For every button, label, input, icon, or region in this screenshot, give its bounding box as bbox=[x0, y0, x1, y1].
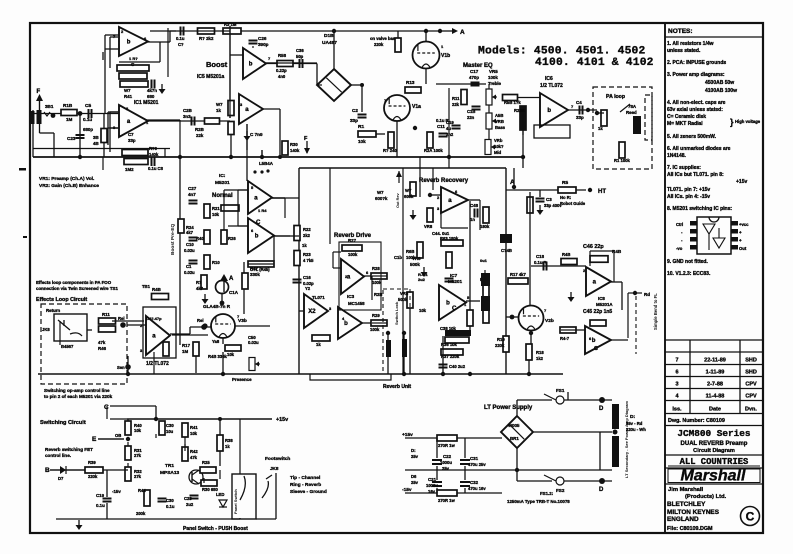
svg-text:Models: 4500. 4501. 4502: Models: 4500. 4501. 4502 bbox=[478, 46, 646, 58]
svg-text:C2: C2 bbox=[352, 108, 358, 113]
wire ic7b vert bbox=[442, 336, 444, 374]
svg-text:R?0: R?0 bbox=[149, 146, 158, 151]
svg-text:1M: 1M bbox=[182, 349, 188, 354]
wire fxop out b bbox=[189, 327, 191, 334]
diode bridge BR1 bbox=[501, 416, 533, 448]
svg-text:Effects loop components in PA: Effects loop components in PA FOO bbox=[36, 280, 112, 285]
svg-text:Ya8: Ya8 bbox=[212, 339, 220, 344]
svg-text:2u2: 2u2 bbox=[418, 277, 426, 282]
node v3a in dot bbox=[202, 323, 207, 328]
svg-text:VR2: Gain (Ch.B) Enhance: VR2: Gain (Ch.B) Enhance bbox=[39, 183, 99, 189]
svg-text:R2B: R2B bbox=[374, 292, 382, 297]
svg-text:7. IC supplies:: 7. IC supplies: bbox=[667, 165, 701, 171]
svg-text:R41: R41 bbox=[124, 94, 133, 99]
svg-text:C 7n9: C 7n9 bbox=[250, 132, 263, 137]
resistor R12fx bbox=[99, 326, 116, 332]
svg-text:+15v: +15v bbox=[736, 179, 747, 185]
wire +15 rail bbox=[127, 418, 272, 420]
svg-text:A5B: A5B bbox=[495, 113, 503, 118]
resistor R44sw bbox=[144, 490, 150, 506]
svg-text:1k: 1k bbox=[216, 108, 221, 113]
wire x2 wire bbox=[299, 310, 304, 312]
svg-text:10k: 10k bbox=[419, 308, 427, 313]
svg-text:4B: 4B bbox=[93, 141, 99, 146]
resistor R57a u4 bbox=[228, 101, 234, 116]
svg-text:Out: Out bbox=[739, 246, 747, 251]
svg-text:1N4148.: 1N4148. bbox=[667, 153, 687, 159]
svg-text:Circuit Diagram: Circuit Diagram bbox=[693, 448, 735, 454]
svg-text:D: D bbox=[599, 487, 604, 493]
capacitor C9 row bbox=[181, 27, 184, 36]
wire horiz 4 bbox=[266, 62, 317, 64]
svg-text:Rel: Rel bbox=[118, 316, 125, 321]
svg-text:-15v: -15v bbox=[402, 487, 412, 493]
node bus dot 4 bbox=[447, 155, 451, 159]
node fx dot bbox=[120, 322, 126, 328]
svg-text:10k: 10k bbox=[190, 431, 198, 436]
relay 78A bbox=[633, 116, 641, 134]
wire normal in bbox=[238, 189, 248, 191]
wire node down bbox=[79, 114, 81, 158]
svg-text:680: 680 bbox=[147, 94, 155, 99]
op-amp U X2 TL071 bbox=[304, 294, 328, 328]
wire r38 wire bbox=[219, 419, 221, 435]
capacitor C22 bbox=[432, 460, 442, 464]
svg-text:File: C80109.DGM: File: C80109.DGM bbox=[667, 526, 713, 532]
svg-text:TL071: TL071 bbox=[312, 295, 325, 300]
svg-text:VR8: VR8 bbox=[400, 291, 409, 296]
svg-text:1k2: 1k2 bbox=[536, 356, 544, 361]
resistor Rps2 bbox=[437, 490, 457, 496]
svg-text:Sleeve - Ground: Sleeve - Ground bbox=[290, 489, 327, 495]
svg-text:R4-7: R4-7 bbox=[560, 336, 570, 341]
svg-text:35v - Rd: 35v - Rd bbox=[626, 421, 643, 426]
svg-text:FS1.2:: FS1.2: bbox=[540, 491, 554, 496]
wire horiz 11 bbox=[50, 469, 85, 471]
svg-text:C32: C32 bbox=[470, 480, 479, 485]
wire vert 10 bbox=[522, 113, 524, 135]
resistor R22 bbox=[294, 226, 300, 241]
svg-text:E: E bbox=[92, 436, 97, 443]
svg-text:FS1: FS1 bbox=[556, 388, 565, 393]
resistor R57b u4 bbox=[228, 122, 234, 135]
svg-text:X2: X2 bbox=[308, 309, 316, 315]
svg-text:High voltage: High voltage bbox=[735, 119, 761, 124]
svg-text:R2A 100k: R2A 100k bbox=[424, 148, 443, 153]
wire u2 fb h2 bbox=[110, 127, 119, 129]
svg-text:C46 22p: C46 22p bbox=[583, 244, 604, 250]
capacitor C32 bbox=[460, 482, 470, 486]
wire bridge top wire bbox=[333, 31, 335, 69]
svg-text:R13: R13 bbox=[406, 80, 415, 85]
svg-text:b: b bbox=[592, 338, 596, 344]
dashed box effects loop box bbox=[41, 304, 127, 384]
R60 gnd arrow bbox=[398, 171, 400, 183]
capacitor C2 bbox=[358, 115, 367, 118]
svg-text:7: 7 bbox=[675, 358, 678, 364]
wire -15 ps bbox=[405, 492, 502, 494]
ground G5 bbox=[76, 520, 83, 530]
wire fb loop u1 bbox=[102, 52, 104, 60]
capacitor C2B bbox=[192, 117, 195, 126]
svg-text:3: 3 bbox=[675, 382, 678, 388]
wire fxop out c bbox=[190, 326, 212, 328]
xfmr winding 2 bbox=[612, 436, 619, 467]
svg-text:4k7n: 4k7n bbox=[147, 88, 157, 93]
F node arrow bbox=[306, 141, 308, 153]
resistor R2 row bbox=[198, 28, 215, 34]
wire bridge left feed bbox=[316, 64, 318, 86]
svg-text:UA487: UA487 bbox=[322, 40, 337, 46]
svg-text:0.1u: 0.1u bbox=[96, 503, 105, 508]
resistor R17fx bbox=[193, 342, 199, 356]
svg-text:1k: 1k bbox=[316, 342, 321, 347]
wire input wire bbox=[34, 113, 119, 115]
resistor R38 bbox=[217, 435, 223, 451]
resistor R11fx bbox=[99, 318, 116, 324]
svg-text:1M: 1M bbox=[66, 117, 73, 122]
wire ic6 down bbox=[522, 130, 524, 168]
op-amp U IC3b bbox=[338, 307, 362, 339]
svg-text:Reed: Reed bbox=[626, 110, 637, 115]
svg-text:10u: 10u bbox=[166, 429, 174, 434]
wire vert 23 bbox=[239, 419, 241, 474]
resistor R71 fb bbox=[590, 320, 606, 326]
svg-text:C16: C16 bbox=[303, 275, 311, 280]
IC pinout diagram U-M5201 bbox=[690, 217, 738, 254]
svg-text:1k: 1k bbox=[598, 126, 603, 131]
resistor R5 bbox=[558, 187, 576, 193]
svg-text:B: B bbox=[45, 467, 50, 474]
svg-text:470u 25v: 470u 25v bbox=[468, 462, 486, 467]
wire c22 up bbox=[436, 438, 438, 458]
node dot t5 bbox=[147, 120, 149, 122]
dashed box PA loop inner bbox=[645, 95, 652, 140]
diode bridge B18 bbox=[317, 69, 351, 101]
wire horiz 13 bbox=[110, 418, 127, 420]
svg-text:C22: C22 bbox=[443, 454, 452, 459]
svg-text:0.1u: 0.1u bbox=[83, 117, 92, 122]
svg-text:No R:: No R: bbox=[560, 195, 571, 200]
svg-text:Rd: Rd bbox=[644, 292, 650, 297]
svg-text:TR1: TR1 bbox=[165, 463, 174, 469]
black comp1 bbox=[481, 273, 490, 286]
svg-text:(Products) Ltd.: (Products) Ltd. bbox=[685, 494, 727, 500]
svg-text:R23B: R23B bbox=[514, 108, 525, 113]
svg-text:Mid: Mid bbox=[494, 150, 502, 155]
svg-text:R58: R58 bbox=[278, 53, 287, 58]
svg-text:R11: R11 bbox=[452, 96, 460, 101]
svg-text:33p 400v: 33p 400v bbox=[544, 203, 562, 208]
wire xf mid bbox=[600, 431, 612, 433]
svg-text:1k: 1k bbox=[225, 444, 230, 449]
wire A down bbox=[513, 168, 515, 187]
wire eq vert col2 bbox=[488, 105, 490, 113]
svg-text:0.1u: 0.1u bbox=[166, 504, 175, 509]
svg-text:100k: 100k bbox=[348, 252, 358, 257]
svg-text:C1A: C1A bbox=[229, 290, 239, 295]
svg-text:C?: C? bbox=[178, 42, 184, 47]
svg-text:Dwg. Number: C80109: Dwg. Number: C80109 bbox=[668, 418, 725, 424]
svg-text:Tip - Channel: Tip - Channel bbox=[290, 475, 320, 481]
svg-text:C27: C27 bbox=[188, 186, 197, 191]
resistor R65 bbox=[446, 252, 452, 268]
svg-text:C26: C26 bbox=[258, 36, 267, 41]
svg-text:33p: 33p bbox=[350, 118, 358, 123]
capacitor C23 bbox=[76, 135, 85, 138]
wire c31 dn bbox=[464, 466, 466, 470]
wire vert 22 bbox=[219, 470, 221, 479]
svg-text:A: A bbox=[460, 29, 465, 36]
svg-text:V1b: V1b bbox=[441, 53, 450, 59]
VR1 pot blob bbox=[37, 110, 42, 124]
svg-text:0.02u: 0.02u bbox=[248, 340, 259, 345]
fuse FS1 bbox=[556, 396, 564, 404]
capacitor C30sw bbox=[158, 499, 167, 502]
node rail dot 4 bbox=[527, 372, 531, 376]
potentiometer presence pot bbox=[249, 358, 260, 371]
svg-text:SHD: SHD bbox=[745, 358, 757, 364]
svg-text:IC7: IC7 bbox=[450, 273, 458, 278]
resistor R58 bbox=[277, 61, 293, 67]
reverb unit dash right bbox=[409, 289, 411, 374]
svg-text:MPSA13: MPSA13 bbox=[160, 470, 180, 476]
svg-text:Dvn.: Dvn. bbox=[745, 407, 757, 413]
resistor R61 bbox=[427, 208, 433, 222]
wire br down bbox=[516, 448, 518, 481]
resistor R54 fb3 bbox=[120, 81, 148, 87]
svg-text:27k: 27k bbox=[134, 453, 142, 458]
wire left edge vertical bbox=[32, 110, 34, 157]
svg-text:C28: C28 bbox=[184, 496, 192, 501]
svg-text:1000u: 1000u bbox=[426, 483, 438, 488]
resistor R66 bbox=[483, 282, 489, 298]
svg-text:VRB: VRB bbox=[495, 119, 504, 124]
svg-text:V3b: V3b bbox=[238, 318, 247, 324]
F arrow bbox=[39, 98, 41, 114]
svg-text:330k: 330k bbox=[250, 272, 260, 277]
svg-text:Footswitch: Footswitch bbox=[265, 456, 290, 462]
op-amp U ICn b bbox=[248, 218, 274, 253]
svg-text:NOTES:: NOTES: bbox=[668, 28, 693, 35]
node v2b in dot bbox=[510, 315, 515, 320]
wire sw left down bbox=[106, 503, 108, 519]
svg-text:1 R4: 1 R4 bbox=[258, 208, 267, 213]
out arrow bbox=[628, 292, 642, 294]
svg-text:C?4B: C?4B bbox=[501, 248, 512, 253]
capacitor C3 bbox=[536, 199, 545, 202]
svg-text:Sen: Sen bbox=[117, 365, 125, 370]
scan mark left edge bbox=[19, 168, 26, 171]
wire vert 20 bbox=[127, 419, 129, 421]
resistor Rpa1 bbox=[601, 110, 607, 126]
svg-text:6: 6 bbox=[675, 370, 678, 376]
wire ic6 in bbox=[517, 97, 540, 99]
resistor R55 fb bbox=[122, 150, 148, 156]
resistor R4 10k bbox=[101, 129, 107, 143]
rec right lbl1 bbox=[500, 234, 512, 243]
capacitor C11 bbox=[439, 134, 448, 137]
revision table grid bbox=[665, 340, 763, 414]
wire u2 fb h bbox=[110, 111, 119, 113]
svg-text:Jim Marshall: Jim Marshall bbox=[668, 487, 704, 493]
wire eq connect bbox=[448, 157, 450, 168]
title separator bbox=[665, 454, 763, 456]
wire C wire bbox=[110, 405, 156, 407]
fx fb box bbox=[143, 307, 176, 358]
svg-text:R38: R38 bbox=[225, 438, 233, 443]
svg-text:1. All resistors 1/4w: 1. All resistors 1/4w bbox=[667, 41, 714, 47]
wire reverb box left bbox=[298, 168, 300, 374]
svg-text:4500AB 50w: 4500AB 50w bbox=[705, 80, 734, 86]
node in dot1 bbox=[51, 113, 56, 118]
node dot t9 bbox=[515, 468, 519, 472]
node out dot bbox=[633, 291, 637, 295]
svg-text:VR8: VR8 bbox=[424, 224, 433, 229]
node rail dot 3 bbox=[441, 372, 445, 376]
resistor Rk2 bbox=[427, 132, 433, 148]
potentiometer VR6 pot bbox=[486, 113, 497, 129]
potentiometer VRb pot bbox=[485, 140, 496, 155]
wire br up bbox=[516, 400, 518, 416]
svg-text:M5201: M5201 bbox=[448, 279, 462, 284]
wire u1 out up bbox=[169, 31, 171, 42]
wire u4 out bbox=[263, 108, 280, 110]
svg-text:MILTON KEYNES: MILTON KEYNES bbox=[667, 509, 720, 516]
svg-text:5. All zeners 500mW.: 5. All zeners 500mW. bbox=[667, 134, 717, 140]
svg-text:10k?: 10k? bbox=[494, 144, 504, 149]
svg-text:D:: D: bbox=[411, 448, 416, 453]
potentiometer VR5 pot bbox=[486, 89, 497, 105]
resistor R25 bbox=[312, 335, 330, 341]
wire mix in2 bbox=[561, 329, 585, 331]
fx jack box bbox=[54, 314, 87, 341]
svg-text:LT Secondary - See Power Amp D: LT Secondary - See Power Amp Diagram bbox=[624, 401, 629, 478]
svg-text:TL071. pin 7: +15v: TL071. pin 7: +15v bbox=[667, 187, 710, 193]
svg-text:R? 240: R? 240 bbox=[383, 148, 397, 153]
svg-text:Return: Return bbox=[46, 308, 60, 313]
svg-text:Marshall: Marshall bbox=[681, 468, 746, 485]
svg-text:+vcc: +vcc bbox=[739, 222, 749, 227]
resistor R40sw bbox=[125, 421, 131, 435]
svg-text:R11: R11 bbox=[102, 312, 110, 317]
svg-text:Iss.: Iss. bbox=[672, 407, 682, 413]
svg-text:Switching op-amp control line: Switching op-amp control line bbox=[44, 388, 110, 393]
node opto dot bbox=[220, 301, 225, 306]
svg-text:10k: 10k bbox=[358, 139, 366, 144]
node dot t8 bbox=[218, 417, 222, 421]
svg-text:IC8: IC8 bbox=[598, 296, 605, 301]
svg-text:B4567: B4567 bbox=[61, 344, 74, 349]
svg-text:4k7: 4k7 bbox=[186, 230, 194, 235]
svg-text:C21: C21 bbox=[428, 477, 437, 482]
svg-text:10k: 10k bbox=[227, 352, 235, 357]
resistor Rn2 bbox=[248, 261, 274, 267]
xfmr winding 1 bbox=[612, 404, 619, 429]
resistor Rps1 bbox=[437, 435, 457, 441]
svg-text:b: b bbox=[446, 301, 450, 307]
wire u2 in1 bbox=[108, 111, 118, 113]
node bus dot 1 bbox=[178, 155, 182, 159]
svg-text:470p: 470p bbox=[469, 75, 479, 80]
wire vert 7 bbox=[419, 157, 421, 197]
wire xf mid2 bbox=[599, 432, 601, 470]
svg-text:M= MKT Radial: M= MKT Radial bbox=[667, 121, 703, 127]
wire c21 dn bbox=[436, 488, 438, 493]
resistor R60 bbox=[410, 182, 416, 196]
node E dot bbox=[126, 437, 130, 441]
resistor Rpa2 bbox=[619, 142, 625, 158]
svg-text:600?k: 600?k bbox=[375, 196, 388, 201]
node dot t2 bbox=[332, 29, 336, 33]
LED D8 bbox=[219, 500, 227, 507]
copyright symbol bbox=[741, 507, 760, 526]
svg-text:IC3: IC3 bbox=[347, 294, 355, 299]
wire vert 9 bbox=[448, 88, 450, 157]
ic6 fb box bbox=[534, 125, 570, 138]
wire c18 wire bbox=[531, 265, 561, 267]
wire 0v ps bbox=[405, 469, 612, 471]
wire fb loop c bbox=[613, 251, 615, 282]
wire r38 down bbox=[219, 451, 221, 466]
resistor R37 bbox=[441, 349, 463, 355]
svg-text:ENGLAND: ENGLAND bbox=[667, 516, 699, 523]
svg-text:R25: R25 bbox=[202, 460, 210, 465]
svg-text:DUAL REVERB Preamp: DUAL REVERB Preamp bbox=[681, 441, 748, 447]
svg-text:0.02u: 0.02u bbox=[184, 270, 195, 275]
svg-text:M5201A: M5201A bbox=[596, 302, 613, 307]
svg-text:SHD: SHD bbox=[745, 370, 757, 376]
svg-text:Treble: Treble bbox=[488, 81, 501, 86]
svg-text:IC:: IC: bbox=[219, 173, 226, 179]
node HT dot bbox=[588, 188, 592, 192]
drive fb box bbox=[339, 242, 381, 310]
resistor Rrx bbox=[467, 310, 473, 326]
op-amp U IC7b bbox=[439, 285, 466, 320]
wire v2b down bbox=[530, 330, 532, 344]
node bus dot 6 bbox=[78, 155, 82, 159]
resistor R70 fb bbox=[590, 256, 608, 263]
svg-text:R39: R39 bbox=[88, 460, 96, 465]
wire upper left rail bbox=[33, 148, 170, 150]
node bus dot 2 bbox=[229, 155, 233, 159]
resistor R43sw bbox=[200, 467, 216, 473]
dashed out bbox=[635, 296, 637, 354]
svg-text:C17: C17 bbox=[470, 69, 479, 74]
wire u2 out bbox=[148, 120, 230, 122]
svg-text:L5B4A: L5B4A bbox=[259, 161, 274, 166]
wire u6 fb h bbox=[248, 263, 274, 265]
dwg number row bbox=[665, 425, 763, 427]
ground G6 bbox=[202, 294, 209, 304]
wire norm vert bbox=[246, 157, 248, 181]
svg-text:b: b bbox=[127, 40, 131, 46]
wire fs2 to d bbox=[564, 480, 612, 482]
svg-text:Rel: Rel bbox=[197, 318, 204, 323]
svg-text:C: C bbox=[746, 510, 755, 524]
wire fs1 to d bbox=[564, 399, 612, 401]
svg-text:220u - Wh: 220u - Wh bbox=[626, 427, 646, 432]
wire norm in wire b bbox=[228, 225, 248, 227]
svg-text:25v: 25v bbox=[442, 466, 450, 471]
wire ic8b out bbox=[611, 339, 628, 341]
wire u1 fb down bbox=[159, 42, 161, 62]
wire r4 up bbox=[103, 114, 105, 129]
svg-text:R10: R10 bbox=[212, 260, 220, 265]
wire rv vert1 bbox=[387, 357, 389, 374]
resistor R29 bbox=[371, 320, 387, 326]
svg-text:R22: R22 bbox=[303, 227, 311, 232]
